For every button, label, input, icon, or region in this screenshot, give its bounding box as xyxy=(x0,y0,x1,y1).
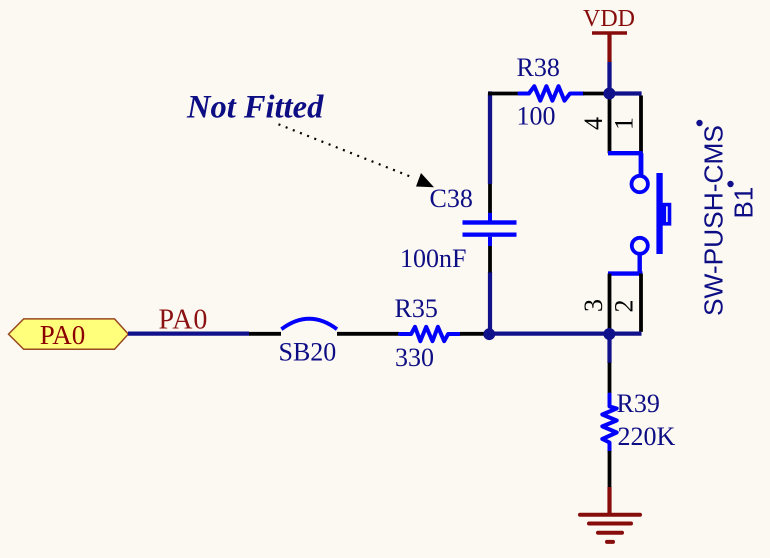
svg-text:100: 100 xyxy=(517,102,556,131)
switch B1 top pins xyxy=(579,94,642,154)
switch body bottom bar xyxy=(608,271,643,275)
pin C38 bottom xyxy=(488,246,492,273)
svg-text:PA0: PA0 xyxy=(159,305,209,336)
svg-text:R39: R39 xyxy=(617,389,660,418)
svg-text:SB20: SB20 xyxy=(279,338,337,367)
arrowhead xyxy=(416,173,434,187)
switch contact bottom xyxy=(632,238,648,254)
wire B down to R39 xyxy=(607,334,611,363)
pin R39 top xyxy=(608,363,612,395)
wire B to pin 2 xyxy=(610,331,642,335)
junction node A xyxy=(483,328,495,340)
switch plunger bar xyxy=(656,173,662,254)
pin R38 right xyxy=(583,92,606,96)
switch stub bottom xyxy=(638,255,642,274)
wire C38 up to corner xyxy=(488,94,490,185)
pin 2 xyxy=(639,274,643,332)
dot near comment xyxy=(696,120,702,126)
svg-text:SW-PUSH-CMS: SW-PUSH-CMS xyxy=(699,125,729,316)
power VDD xyxy=(583,6,635,62)
svg-text:4: 4 xyxy=(579,117,608,130)
svg-text:C38: C38 xyxy=(430,184,473,213)
solder bridge SB20 xyxy=(281,319,337,329)
wire to ground xyxy=(607,487,611,515)
switch body top bar xyxy=(608,151,643,155)
wire C to pin 1 xyxy=(610,91,642,95)
dot near designator xyxy=(727,181,733,187)
svg-text:PA0: PA0 xyxy=(40,320,86,350)
svg-text:1: 1 xyxy=(610,117,639,130)
ground xyxy=(580,515,640,542)
pin 1 xyxy=(639,96,643,154)
pin SB20 left xyxy=(249,332,281,336)
pin R39 bottom xyxy=(608,451,612,487)
capacitor C38 xyxy=(463,212,517,246)
resistor R35 xyxy=(400,327,459,341)
switch stub top xyxy=(639,153,644,174)
resistor R39 xyxy=(602,395,616,452)
pin C38 top xyxy=(488,184,492,213)
switch B1 bottom pins xyxy=(579,274,642,334)
junction node B xyxy=(603,328,615,340)
resistor R38 xyxy=(520,86,584,101)
svg-text:VDD: VDD xyxy=(583,6,635,32)
svg-text:Not Fitted: Not Fitted xyxy=(186,90,324,126)
junction node C xyxy=(603,88,615,100)
wire A to B xyxy=(490,332,610,336)
pin 3 xyxy=(608,274,612,332)
svg-text:R38: R38 xyxy=(517,53,560,82)
svg-text:2: 2 xyxy=(610,300,639,313)
wire port to SB20 xyxy=(128,332,249,336)
svg-text:220K: 220K xyxy=(618,422,676,451)
wire A up to C38 xyxy=(488,272,492,334)
svg-text:3: 3 xyxy=(579,299,608,312)
pin SB20 right / pin R35 left xyxy=(337,332,399,336)
svg-text:B1: B1 xyxy=(729,187,759,219)
dotted arrow line xyxy=(279,124,413,177)
svg-text:R35: R35 xyxy=(395,294,438,323)
pin 4 xyxy=(608,94,612,154)
pin R38 left xyxy=(488,92,520,96)
switch contact top xyxy=(632,176,648,192)
port PA0 xyxy=(9,319,129,350)
pin R35 right xyxy=(460,332,486,336)
svg-text:100nF: 100nF xyxy=(400,244,466,273)
wire VDD to C xyxy=(607,62,611,94)
switch plunger tab xyxy=(664,205,669,224)
svg-text:330: 330 xyxy=(395,343,434,372)
